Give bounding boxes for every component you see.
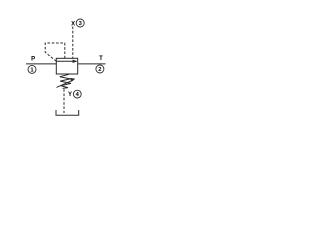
pilot line from P — [45, 43, 65, 61]
spring — [60, 74, 71, 88]
flow path arrow — [56, 60, 77, 63]
svg-text:T: T — [99, 56, 103, 62]
node 4 — [73, 90, 81, 98]
tank — [56, 110, 79, 115]
adjustment arrow — [57, 78, 76, 88]
pilot line X — [72, 27, 74, 59]
node 2 — [96, 65, 104, 73]
port line P — [26, 63, 56, 65]
svg-text:X: X — [71, 22, 75, 28]
svg-text:P: P — [31, 56, 35, 62]
valve body — [56, 58, 77, 74]
port line T — [78, 63, 106, 65]
node 3 — [76, 19, 84, 27]
drain line Y — [63, 89, 65, 113]
node 1 — [28, 65, 36, 73]
svg-text:Y: Y — [68, 92, 72, 98]
svg-text:2: 2 — [98, 67, 101, 73]
